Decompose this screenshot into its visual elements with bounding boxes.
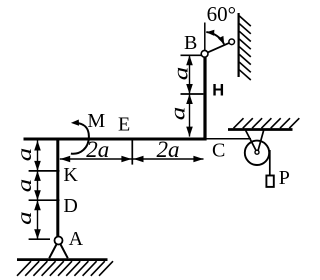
pulley hub (255, 150, 259, 154)
pulley hanger bracket (246, 131, 264, 152)
wall anchor circle (229, 39, 235, 45)
60 degree angle arc arrow (206, 32, 224, 44)
node B tick (181, 54, 202, 56)
bottom dimension arrowheads (60, 156, 203, 163)
svg-text:B: B (184, 32, 197, 54)
svg-text:2a: 2a (157, 137, 180, 162)
node D tick (29, 199, 60, 201)
svg-text:a: a (14, 211, 36, 225)
link bar B to wall anchor (205, 42, 232, 54)
pin circle at A (55, 237, 63, 245)
svg-text:a: a (14, 148, 36, 162)
hinge circle B (201, 50, 208, 57)
svg-text:A: A (69, 228, 84, 250)
svg-text:a: a (171, 67, 193, 81)
moment M arc arrow (71, 123, 89, 154)
member C-B (right column) (203, 54, 206, 141)
node K tick (29, 170, 60, 172)
node A tick (29, 238, 50, 240)
member A-corner (left column) (56, 139, 59, 237)
svg-text:E: E (118, 114, 130, 136)
rope from pulley down to weight P (269, 150, 271, 176)
ground hatching below support A (17, 261, 113, 276)
ceiling hatching above pulley (234, 118, 300, 128)
node E tick (131, 141, 133, 165)
node H tick (181, 93, 204, 95)
bottom dimension line 2a-2a (60, 158, 204, 160)
ground line at A (17, 258, 108, 261)
pulley wheel (245, 141, 269, 165)
svg-text:a: a (14, 179, 36, 193)
line extension above B (204, 23, 206, 51)
wall line (right wall) (238, 13, 240, 77)
weight block P (266, 176, 273, 187)
left dimension line a-a-a (37, 141, 39, 240)
right dimension line a-a (B to C) (189, 55, 191, 136)
svg-text:P: P (279, 167, 290, 189)
member corner-C (horizontal beam, left end doubles as top dimension tick) (24, 138, 207, 141)
svg-text:H: H (212, 82, 224, 100)
svg-text:a: a (168, 107, 190, 121)
svg-text:D: D (63, 195, 77, 217)
svg-text:K: K (63, 164, 78, 186)
svg-text:C: C (212, 139, 225, 161)
ceiling line above pulley (228, 128, 293, 131)
left dimension arrowheads (34, 141, 41, 240)
rope from C to pulley (207, 138, 252, 140)
svg-text:M: M (87, 110, 105, 132)
wall hatching (239, 16, 251, 80)
svg-text:2a: 2a (86, 137, 109, 162)
svg-text:60°: 60° (207, 2, 236, 26)
pin support triangle at A (49, 241, 68, 259)
right dimension arrowheads (186, 55, 193, 136)
